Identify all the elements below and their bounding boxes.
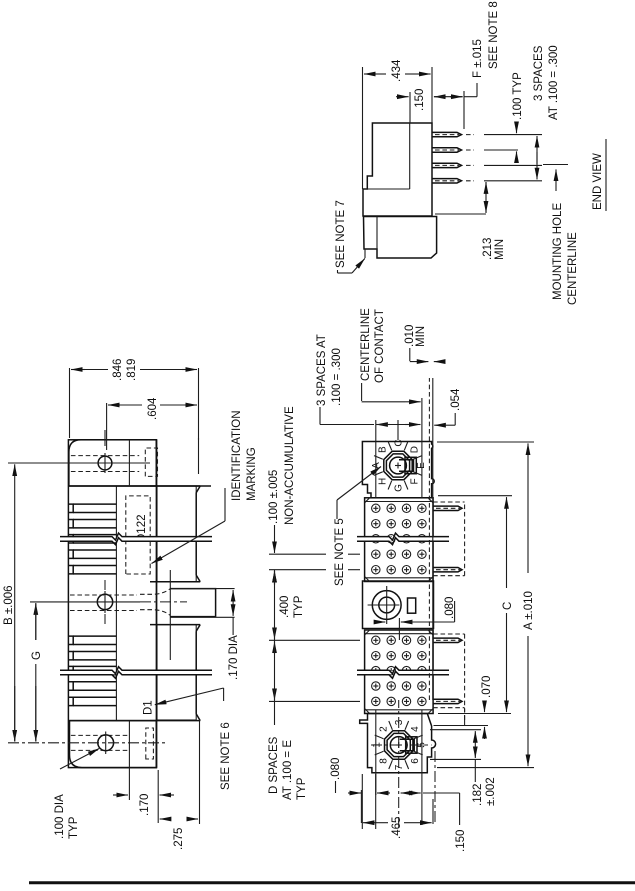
dimension .054 [434, 388, 462, 425]
svg-text:IDENTIFICATION: IDENTIFICATION [231, 410, 243, 501]
front view contact block 1 [365, 498, 434, 582]
svg-text:CENTERLINE: CENTERLINE [567, 232, 579, 305]
svg-text:.054: .054 [450, 388, 462, 411]
svg-text:6: 6 [410, 758, 421, 764]
svg-text:.213: .213 [482, 238, 494, 260]
top view body deck [68, 440, 156, 768]
svg-text:.070: .070 [481, 676, 493, 698]
svg-text:G: G [394, 484, 405, 492]
svg-text:8: 8 [378, 758, 389, 764]
svg-text:A: A [371, 462, 382, 469]
svg-text:CENTERLINE: CENTERLINE [360, 308, 372, 381]
front view keyed section left [360, 714, 436, 773]
board pins below block 1 [433, 502, 465, 576]
top view mounting ear right [69, 440, 211, 486]
label IDENTIFICATION MARKING with leader [152, 410, 259, 563]
svg-text:F ±.015: F ±.015 [472, 39, 484, 78]
dimension D SPACES arrows [268, 640, 308, 800]
center screw hole top view [30, 580, 187, 624]
svg-text:.080: .080 [330, 758, 342, 780]
svg-text:.275: .275 [173, 828, 185, 850]
dimension .100 TYP end view [512, 72, 524, 157]
svg-text:MOUNTING HOLE: MOUNTING HOLE [552, 203, 564, 300]
svg-text:3 SPACES AT: 3 SPACES AT [316, 334, 328, 406]
dimension chain .100/.400/D SPACES extension lines [269, 554, 360, 701]
top view mounting ear left [69, 721, 156, 768]
dimension .100 +-.005 arrows [274, 525, 276, 585]
svg-text:±.002: ±.002 [485, 777, 497, 806]
svg-text:C: C [394, 439, 405, 446]
front view keyed section right [362, 442, 434, 498]
svg-text:.434: .434 [391, 59, 403, 82]
dimension .150 centerline to row D [401, 793, 467, 852]
svg-text:A ±.010: A ±.010 [523, 591, 535, 630]
svg-text:.182: .182 [472, 784, 484, 806]
dimension C [438, 496, 514, 714]
label .100 +-.005 NON-ACCUMULATIVE [268, 406, 296, 525]
front view break lines block2 [357, 667, 449, 679]
dimension .846/.819 [70, 359, 199, 440]
dimension .150 end view [396, 89, 446, 123]
svg-text:2: 2 [378, 726, 389, 732]
dimension .465 [361, 790, 433, 839]
end view pins [432, 132, 474, 183]
dimension .182 +-.002 [430, 730, 497, 806]
svg-text:D SPACES: D SPACES [268, 736, 280, 794]
svg-text:SEE NOTE 6: SEE NOTE 6 [220, 722, 232, 790]
top view potting wall block A [150, 486, 200, 582]
top view center hole neck [140, 570, 216, 660]
svg-text:4: 4 [410, 726, 421, 732]
svg-text:AT .100 = E: AT .100 = E [282, 740, 294, 800]
svg-text:.150: .150 [455, 830, 467, 852]
top view deck lines [116, 438, 198, 768]
centerline pin tips block2 [464, 708, 466, 726]
end view mounting flange [364, 217, 437, 259]
dimension .604 [107, 397, 197, 450]
ear left hidden slot lines [71, 735, 129, 750]
svg-text:NON-ACCUMULATIVE: NON-ACCUMULATIVE [284, 406, 296, 525]
svg-text:.100 TYP: .100 TYP [512, 72, 524, 120]
svg-text:SEE NOTE 8: SEE NOTE 8 [488, 1, 500, 69]
dimension .275 [160, 721, 200, 850]
front view center mounting hole [368, 586, 402, 624]
connector centerline [398, 420, 399, 828]
svg-text:.170: .170 [139, 794, 151, 816]
svg-text:C: C [502, 602, 514, 610]
top view potting wall block B [150, 625, 200, 721]
dimension .010 MIN [404, 325, 440, 362]
dimension .170 [113, 769, 174, 824]
mating face lines extended [429, 378, 432, 700]
label CENTERLINE OF CONTACT [360, 308, 421, 402]
sheet border line [29, 881, 635, 884]
label D122 [136, 515, 148, 543]
svg-text:3 SPACES: 3 SPACES [533, 45, 545, 101]
label MOUNTING HOLE CENTERLINE [552, 169, 579, 305]
mounting screw hole right [8, 430, 150, 473]
svg-text:OF CONTACT: OF CONTACT [374, 309, 386, 383]
dimension .434 [363, 59, 433, 189]
mounting hole centerline mark [543, 164, 568, 166]
identification marking box D122 [126, 496, 150, 574]
svg-text:.080: .080 [444, 597, 456, 619]
svg-text:.400: .400 [279, 596, 291, 618]
svg-text:MIN: MIN [415, 326, 427, 347]
dimension A +-.010 [437, 442, 535, 768]
svg-text:.604: .604 [147, 397, 159, 420]
front view middle section [363, 581, 434, 629]
keyed power contact 1-8 [372, 719, 428, 770]
dimension .080 left [330, 758, 390, 829]
keyed power contact A-H [371, 439, 427, 492]
svg-text:MIN: MIN [494, 239, 506, 260]
keyed contact vertical centerlines [371, 744, 432, 746]
svg-text:G: G [31, 651, 43, 660]
dimension F +-.015 [434, 1, 500, 129]
ear left id plate dashed box [146, 728, 154, 759]
svg-text:H: H [378, 478, 389, 485]
label SEE NOTE 6 with leader [155, 688, 232, 790]
svg-text:END VIEW: END VIEW [592, 153, 604, 210]
svg-text:TYP: TYP [296, 777, 308, 800]
front view contact block 2 [365, 630, 434, 714]
dimension B +-.006 [3, 464, 15, 741]
ear right hidden slot lines [71, 456, 139, 472]
svg-text:TYP: TYP [68, 816, 80, 839]
svg-text:TYP: TYP [293, 595, 305, 618]
top view ribs [68, 504, 116, 705]
dimension 3 SPACES front [316, 334, 421, 424]
svg-text:.100 DIA: .100 DIA [54, 794, 66, 839]
label D1 [143, 700, 155, 715]
svg-text:3: 3 [394, 719, 405, 725]
dash-dot line left end [434, 750, 436, 822]
dimension .213 MIN [435, 182, 506, 260]
svg-text:D: D [409, 446, 420, 453]
top view break lines left [60, 667, 212, 679]
svg-text:7: 7 [394, 764, 405, 770]
dimension .080 center hole [374, 597, 456, 622]
svg-text:D1: D1 [143, 700, 155, 715]
svg-text:.100 ±.005: .100 ±.005 [268, 470, 280, 524]
svg-text:.170 DIA: .170 DIA [228, 635, 240, 680]
svg-text:.100 = .300: .100 = .300 [331, 348, 343, 406]
contact array block 2 [372, 636, 427, 706]
svg-text:.150: .150 [414, 89, 426, 111]
contact array block 1 [372, 504, 427, 574]
pin centerline extensions [484, 135, 542, 181]
top view break lines right [60, 533, 212, 545]
mounting screw hole left [8, 732, 166, 755]
label SEE NOTE 5 with leader [334, 467, 381, 587]
svg-text:.819: .819 [126, 359, 138, 381]
board pins below block 2 [433, 634, 465, 720]
svg-text:F: F [409, 478, 420, 484]
dimension .070 [434, 676, 494, 739]
svg-text:MARKING: MARKING [246, 447, 258, 501]
dimension G [31, 603, 43, 741]
svg-text:AT .100 = .300: AT .100 = .300 [548, 45, 560, 120]
label .100 DIA TYP with leader [54, 749, 99, 840]
title END VIEW [592, 139, 606, 211]
front view polarization slot [408, 598, 416, 613]
svg-text:B: B [378, 446, 389, 453]
ear right id plate dashed box [145, 448, 157, 476]
front view break lines block1 [357, 533, 449, 545]
end view housing [363, 123, 432, 216]
contact row centerlines keyed sections [376, 398, 422, 825]
svg-text:SEE NOTE 7: SEE NOTE 7 [335, 200, 347, 268]
svg-text:B ±.006: B ±.006 [3, 585, 15, 625]
svg-text:.846: .846 [112, 359, 124, 381]
label SEE NOTE 7 with leader [335, 200, 365, 273]
svg-text:.465: .465 [391, 817, 403, 839]
dimension 3 SPACES end view [533, 45, 560, 179]
svg-text:SEE NOTE 5: SEE NOTE 5 [334, 518, 346, 586]
dimension .400 TYP [275, 570, 306, 641]
dimension .170 DIA [170, 589, 240, 680]
